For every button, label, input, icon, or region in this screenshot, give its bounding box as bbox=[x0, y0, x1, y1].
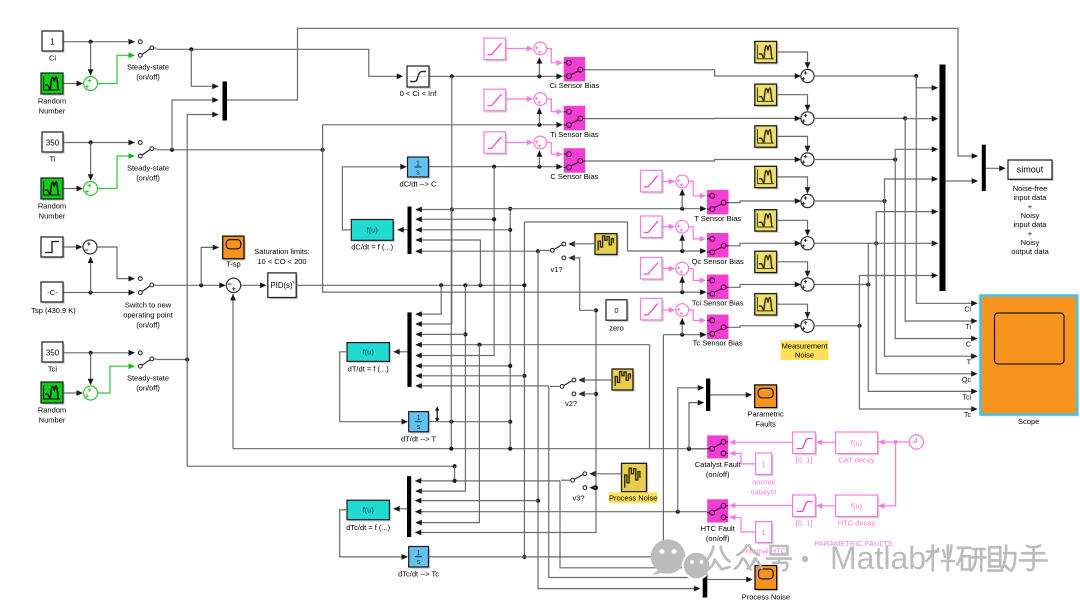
wire Tsp to switch bbox=[64, 257, 131, 295]
svg-text:Ti: Ti bbox=[50, 155, 56, 164]
mux D (dTc/dt) bbox=[407, 476, 411, 537]
svg-text:v3?: v3? bbox=[572, 494, 584, 503]
wire Tci sensor row bbox=[323, 150, 707, 295]
wire sum to switch Ci bbox=[547, 49, 563, 66]
svg-text:Tci: Tci bbox=[962, 395, 971, 402]
wire CO to muxC in1 bbox=[415, 285, 441, 317]
svg-text:zero: zero bbox=[609, 324, 624, 333]
annotation Measurement Noise bbox=[781, 341, 829, 360]
sum noisy Ci bbox=[801, 69, 814, 82]
wire CO vertical bbox=[415, 222, 526, 559]
svg-text:Random: Random bbox=[38, 406, 66, 415]
wire v3 out vertical bbox=[560, 480, 700, 571]
sum Ci sensor bbox=[534, 42, 547, 55]
constant Tci bbox=[42, 342, 65, 374]
svg-text:Tc Sensor Bias: Tc Sensor Bias bbox=[693, 339, 743, 348]
svg-text:Tci Sensor Bias: Tci Sensor Bias bbox=[692, 299, 744, 308]
wire sum to switch Tci bbox=[689, 269, 707, 284]
mux E (outputs) bbox=[940, 65, 946, 292]
integrator dT/dt to T bbox=[401, 412, 436, 444]
noise block sensor C bbox=[755, 126, 779, 149]
wire HTC out bbox=[678, 385, 704, 512]
ramp Tc bias bbox=[641, 298, 664, 321]
svg-text:dTc/dt = f (...): dTc/dt = f (...) bbox=[346, 523, 390, 532]
wire CAT decay to sat01a bbox=[816, 439, 836, 445]
svg-text:catalyst: catalyst bbox=[751, 488, 777, 497]
wire T out bbox=[429, 209, 511, 449]
wire v2 to muxC in8 bbox=[415, 383, 548, 389]
svg-text:Catalyst Fault: Catalyst Fault bbox=[695, 460, 742, 469]
wire switch3 to sum5 bbox=[157, 282, 226, 288]
svg-text:Noisy: Noisy bbox=[1021, 238, 1040, 247]
svg-text:Tc: Tc bbox=[964, 412, 972, 419]
wire Ti to scope bbox=[905, 118, 978, 331]
svg-text:T-sp: T-sp bbox=[226, 260, 241, 269]
wire switch1 out bbox=[157, 47, 404, 79]
noise block v1 bbox=[595, 234, 619, 257]
wire muxH to scope bbox=[707, 577, 752, 583]
svg-text:(on/off): (on/off) bbox=[136, 73, 160, 82]
svg-text:Noise: Noise bbox=[795, 351, 814, 360]
wire sum2 to switch (green) bbox=[98, 156, 129, 189]
wire feedback/catalyst row y449 bbox=[230, 294, 707, 451]
svg-text:(on/off): (on/off) bbox=[136, 321, 160, 330]
wire muxC in3 from PID branch bbox=[415, 285, 467, 494]
wire sum noisy Qc to muxE bbox=[814, 209, 938, 246]
wire HTC decay to sat01b bbox=[816, 503, 836, 509]
wire noise to sum Qc bbox=[777, 220, 811, 236]
svg-text:Noise-free: Noise-free bbox=[1013, 184, 1048, 193]
svg-text:1: 1 bbox=[50, 38, 55, 47]
sum Tc sensor bbox=[676, 304, 689, 317]
wire rand1 to sum1 bbox=[64, 81, 84, 87]
wire T row bbox=[451, 189, 706, 212]
wire Tc row bbox=[663, 318, 706, 338]
wire rand3 to sum4 bbox=[64, 390, 84, 396]
svg-text:CAT decay: CAT decay bbox=[838, 456, 875, 465]
wire noise to sum T bbox=[777, 177, 811, 194]
svg-text:input data: input data bbox=[1014, 193, 1048, 202]
switch Qc Sensor Bias bbox=[692, 233, 744, 266]
svg-text:dC/dt --> C: dC/dt --> C bbox=[400, 180, 437, 189]
sum Tci sensor bbox=[676, 262, 689, 275]
simout annotation bbox=[1011, 184, 1049, 256]
mux B (dC/dt) bbox=[408, 207, 412, 255]
wire step to sum3 bbox=[64, 244, 83, 250]
wire noise to sum Tc bbox=[777, 304, 811, 318]
wire zero vertical to muxD in6 bbox=[415, 308, 598, 535]
sum Qc sensor bbox=[676, 220, 689, 233]
ramp Tci bias bbox=[641, 258, 664, 281]
svg-text:350: 350 bbox=[46, 349, 60, 358]
svg-text:Ci Sensor Bias: Ci Sensor Bias bbox=[550, 81, 600, 90]
noise block sensor T bbox=[755, 166, 779, 189]
sum C sensor bbox=[534, 136, 547, 149]
wire fcnT to integrator T bbox=[340, 352, 408, 425]
svg-text:T Sensor Bias: T Sensor Bias bbox=[694, 214, 741, 223]
svg-text:Parametric: Parametric bbox=[747, 410, 784, 419]
wire sum4 to switch (green) bbox=[98, 366, 129, 393]
wire switch2 out bbox=[157, 148, 325, 152]
switch T Sensor Bias bbox=[694, 190, 741, 223]
svg-text:Qc: Qc bbox=[962, 377, 971, 384]
clock bbox=[909, 435, 923, 449]
manual switch Steady-state 3 bbox=[127, 350, 169, 393]
random number 2 bbox=[38, 178, 66, 221]
wire muxD out to fcn bbox=[393, 506, 407, 512]
svg-text:1: 1 bbox=[417, 550, 421, 557]
wire ramp to sum Tc bbox=[662, 307, 675, 313]
mux G (parametric) bbox=[706, 379, 710, 411]
wire switch out T bbox=[729, 198, 802, 204]
wire catalyst out bbox=[687, 400, 707, 451]
wire C to muxB in2 bbox=[415, 216, 494, 222]
constant Tsp -C- bbox=[31, 282, 76, 315]
wire sum noisy Tc to muxE bbox=[814, 273, 938, 328]
noise block sensor Ti bbox=[755, 84, 779, 107]
svg-text:Number: Number bbox=[39, 416, 66, 425]
wire noise to sum Tci bbox=[777, 262, 811, 278]
wire sum noisy T to muxE bbox=[814, 176, 938, 203]
wire sum to switch C bbox=[547, 143, 563, 158]
svg-text:Measurement: Measurement bbox=[782, 342, 829, 351]
svg-text:Matlab: Matlab bbox=[830, 540, 926, 576]
svg-text:+: + bbox=[1028, 229, 1033, 238]
wire Ci to switch bbox=[64, 40, 131, 76]
svg-text:simout: simout bbox=[1017, 165, 1044, 175]
wire switch out Tc bbox=[729, 323, 802, 329]
wire C to scope bbox=[895, 160, 978, 349]
PID controller bbox=[268, 273, 298, 299]
wire T vertical x510 bbox=[415, 207, 512, 449]
wire Tc to scope bbox=[859, 326, 977, 419]
mux C (dT/dt) bbox=[407, 312, 411, 387]
wire zero to v3 in2 bbox=[594, 487, 597, 489]
switch HTC Fault bbox=[701, 499, 736, 543]
integrator dC/dt to C bbox=[400, 157, 437, 189]
wire noise to sum C bbox=[777, 136, 811, 152]
wire v3 line muxD in1 bbox=[415, 478, 560, 484]
wire switch out Ti bbox=[585, 116, 801, 122]
noise block sensor Tci bbox=[755, 251, 779, 274]
wire v1 noise to switch bbox=[573, 243, 596, 245]
ramp Ti bias bbox=[484, 89, 507, 112]
wire ramp to sum Qc bbox=[662, 224, 675, 230]
wire CO to Qc sensor bbox=[524, 222, 706, 254]
svg-text:f(u): f(u) bbox=[363, 348, 375, 357]
wire HTC row y511 bbox=[415, 509, 707, 515]
svg-text:operating point: operating point bbox=[123, 311, 174, 320]
svg-text:1: 1 bbox=[762, 528, 766, 537]
switch Ti Sensor Bias bbox=[550, 106, 599, 139]
wire to muxD in5 bbox=[415, 345, 479, 526]
switch Tc Sensor Bias bbox=[693, 315, 743, 348]
switch Catalyst Fault bbox=[695, 435, 742, 479]
sum T sensor bbox=[676, 175, 689, 188]
saturation [0,1] a bbox=[793, 432, 818, 465]
svg-text:Random: Random bbox=[38, 97, 66, 106]
svg-text:Saturation limits:: Saturation limits: bbox=[254, 247, 309, 256]
wire sum noisy C to muxE bbox=[814, 146, 938, 161]
svg-text:350: 350 bbox=[46, 139, 60, 148]
svg-text:dT/dt = f (...): dT/dt = f (...) bbox=[348, 365, 390, 374]
constant Ci bbox=[42, 31, 65, 63]
noise block sensor Qc bbox=[755, 210, 779, 233]
wire T to scope bbox=[885, 201, 978, 366]
svg-text:s: s bbox=[417, 559, 421, 566]
manual switch Steady-state 1 bbox=[127, 39, 169, 82]
wire muxB out to fcn bbox=[397, 227, 407, 233]
scope Process Noise bbox=[742, 566, 790, 602]
fcn dC/dt bbox=[351, 220, 395, 252]
wire switch out Ci bbox=[585, 70, 801, 79]
fcn dT/dt bbox=[347, 343, 391, 374]
svg-text:input data: input data bbox=[1014, 220, 1048, 229]
manual switch v3 bbox=[571, 471, 596, 503]
svg-text:Number: Number bbox=[39, 107, 66, 116]
wire Tci steady to muxA in3 bbox=[157, 112, 219, 362]
svg-text:HTC decay: HTC decay bbox=[838, 519, 876, 528]
wire sat01b to HTC switch bbox=[729, 503, 793, 509]
wire sat01a to catalyst switch bbox=[729, 439, 793, 445]
constant Ti bbox=[42, 132, 65, 164]
ramp Qc bias bbox=[641, 216, 664, 239]
wire Ti to sensor row bbox=[323, 108, 563, 150]
wire switch out Tci bbox=[729, 282, 802, 288]
svg-text:f(u): f(u) bbox=[851, 439, 863, 448]
svg-text:Number: Number bbox=[39, 212, 66, 221]
svg-text:Qc Sensor Bias: Qc Sensor Bias bbox=[692, 257, 744, 266]
annotation saturation limits bbox=[254, 247, 309, 266]
random number 1 bbox=[38, 73, 66, 116]
svg-text:Ci: Ci bbox=[964, 307, 971, 314]
svg-text:[0, 1]: [0, 1] bbox=[796, 456, 813, 465]
sum noisy Tci bbox=[801, 278, 814, 291]
wire noise to sum Ci bbox=[777, 52, 811, 69]
wire rand2 to sum2 bbox=[64, 186, 84, 192]
wire ramp to sum T bbox=[662, 179, 675, 185]
svg-text:Steady-state: Steady-state bbox=[127, 63, 169, 72]
wire PID out (CO) bbox=[296, 283, 524, 287]
svg-text:f(u): f(u) bbox=[851, 502, 863, 511]
svg-text:output data: output data bbox=[1011, 247, 1049, 256]
wire Qc to scope bbox=[876, 243, 978, 384]
svg-text:f(u): f(u) bbox=[367, 226, 379, 235]
wire Ti to switch bbox=[64, 140, 131, 180]
wire sum noisy Tci to muxE bbox=[814, 240, 938, 286]
wire sum5 to PID bbox=[241, 282, 267, 288]
mux A bbox=[223, 82, 228, 121]
sum noisy Ti bbox=[801, 112, 814, 125]
mux F (simout) bbox=[982, 145, 986, 191]
integrator dTc/dt to Tc bbox=[398, 547, 439, 579]
scope Parametric Faults bbox=[747, 385, 784, 429]
svg-text:v1?: v1? bbox=[550, 265, 562, 274]
svg-text:normal: normal bbox=[752, 478, 775, 487]
svg-text:C: C bbox=[966, 342, 971, 349]
wire sum to switch Tc bbox=[689, 310, 707, 323]
svg-text:Faults: Faults bbox=[755, 420, 776, 429]
sum noisy T bbox=[801, 194, 814, 207]
sum noisy C bbox=[801, 153, 814, 166]
wire ramp to sum Ti bbox=[506, 96, 534, 102]
ramp T bias bbox=[641, 170, 664, 193]
wire clock to CAT decay bbox=[878, 439, 909, 445]
svg-text:dC/dt = f (...): dC/dt = f (...) bbox=[351, 243, 393, 252]
wire muxF to simout bbox=[986, 165, 1006, 171]
wire normal catalyst to switch bbox=[729, 451, 756, 464]
sum 5 (PID) bbox=[226, 278, 240, 292]
manual switch Steady-state 2 bbox=[127, 140, 169, 183]
wire C row bbox=[429, 150, 563, 169]
wire to T-sp bbox=[201, 245, 219, 286]
wire Tci to scope bbox=[868, 285, 977, 402]
switch Ci Sensor Bias bbox=[550, 57, 600, 90]
wire sum1 to switch (green) bbox=[98, 55, 129, 83]
sum 4 (green) bbox=[84, 386, 98, 400]
wire Tci to switch bbox=[64, 351, 131, 386]
svg-text:0 < Ci < Inf: 0 < Ci < Inf bbox=[400, 89, 438, 98]
step block bbox=[41, 237, 65, 259]
svg-text:Scope: Scope bbox=[1018, 417, 1039, 426]
sum 3 (step) bbox=[83, 240, 97, 254]
wire muxB in4 bbox=[415, 237, 480, 285]
wire switch out C bbox=[585, 157, 801, 163]
constant normal HTC bbox=[746, 522, 787, 556]
sum noisy Qc bbox=[801, 237, 814, 250]
simout block bbox=[1008, 160, 1054, 181]
manual switch operating point bbox=[123, 276, 174, 330]
wire Ci down to muxB/muxC bbox=[415, 76, 454, 327]
svg-text:10 < CO < 200: 10 < CO < 200 bbox=[257, 257, 306, 266]
wire noise-free bundle (top) bbox=[227, 28, 978, 159]
ramp Ci bias bbox=[484, 38, 507, 61]
noise block v3 bbox=[622, 463, 649, 493]
svg-text:0: 0 bbox=[614, 306, 618, 315]
fcn dTc/dt bbox=[346, 500, 391, 532]
wire T feedback to muxC in4 bbox=[415, 342, 649, 449]
watermark logo and text bbox=[651, 539, 1047, 580]
svg-text:Ci: Ci bbox=[49, 54, 56, 63]
sum Ti sensor bbox=[534, 93, 547, 106]
wire muxG to scope bbox=[710, 392, 752, 398]
noise block v2 bbox=[612, 369, 635, 392]
svg-text:Random: Random bbox=[38, 202, 66, 211]
svg-text:+: + bbox=[1028, 202, 1033, 211]
wire ramp to sum Ci bbox=[506, 46, 534, 52]
wire C down muxC in5 bbox=[415, 167, 496, 359]
svg-text:s: s bbox=[416, 170, 420, 177]
wire muxC out to fcn bbox=[393, 349, 407, 355]
svg-text:T: T bbox=[967, 359, 972, 366]
svg-text:Ti: Ti bbox=[965, 324, 971, 331]
wire sum to switch Ti bbox=[547, 99, 563, 115]
svg-text:[0, 1]: [0, 1] bbox=[796, 519, 813, 528]
svg-text:Process Noise: Process Noise bbox=[609, 494, 657, 503]
wire v1 out bbox=[538, 249, 550, 252]
wire Tci feed bbox=[187, 360, 457, 481]
wire normal HTC to switch bbox=[729, 514, 756, 532]
wire sum3 to switch bbox=[97, 247, 129, 279]
scope block bbox=[981, 296, 1079, 427]
svg-text:-C-: -C- bbox=[47, 288, 58, 297]
svg-text:C Sensor Bias: C Sensor Bias bbox=[550, 172, 598, 181]
svg-text:PID(s): PID(s) bbox=[270, 281, 292, 290]
noise block sensor Ci bbox=[755, 41, 779, 64]
ramp C bias bbox=[484, 132, 507, 155]
noise block sensor Tc bbox=[755, 294, 779, 317]
scope T-sp bbox=[223, 236, 246, 268]
updown arrow annotation bbox=[435, 406, 439, 422]
svg-text:1: 1 bbox=[416, 161, 420, 168]
manual switch v1 bbox=[550, 241, 574, 274]
wire muxE to muxF bbox=[946, 178, 979, 184]
svg-text:f(u): f(u) bbox=[363, 506, 375, 515]
constant zero bbox=[606, 300, 629, 333]
wire v2 out vertical bbox=[549, 386, 701, 581]
sum noisy Tc bbox=[801, 319, 814, 332]
wire sum noisy Ti to muxE bbox=[814, 116, 938, 122]
wire v3 noise to switch bbox=[594, 473, 622, 475]
constant normal catalyst bbox=[751, 453, 777, 497]
annotation Process Noise label bbox=[609, 492, 658, 503]
switch C Sensor Bias bbox=[550, 148, 598, 181]
wire fcn to integrator C bbox=[342, 164, 406, 230]
wire ramp to sum Tci bbox=[662, 266, 675, 272]
wire zero to v1 in2 bbox=[573, 258, 597, 310]
svg-text:Tsp (430.9 K): Tsp (430.9 K) bbox=[31, 306, 76, 315]
svg-text:Ti Sensor Bias: Ti Sensor Bias bbox=[550, 130, 599, 139]
svg-text:Steady-state: Steady-state bbox=[127, 374, 169, 383]
svg-text:(on/off): (on/off) bbox=[136, 384, 160, 393]
fcn HTC decay bbox=[836, 495, 880, 528]
svg-text:v2?: v2? bbox=[565, 399, 577, 408]
wire zero to v2 in2 bbox=[583, 393, 597, 395]
wire sum to switch T bbox=[689, 181, 707, 198]
random number 3 bbox=[38, 382, 66, 425]
svg-text:(on/off): (on/off) bbox=[706, 470, 730, 479]
svg-text:dTc/dt --> Tc: dTc/dt --> Tc bbox=[398, 570, 439, 579]
wire Ci to scope bbox=[916, 76, 977, 314]
switch Tci Sensor Bias bbox=[692, 275, 744, 308]
wire Tc out bbox=[429, 335, 664, 557]
svg-text:(on/off): (on/off) bbox=[136, 174, 160, 183]
wire v1 to muxB in5 bbox=[415, 248, 540, 254]
wire clock to HTC decay bbox=[878, 442, 896, 509]
wire noise to sum Ti bbox=[777, 95, 811, 112]
wire to muxA in2 bbox=[172, 97, 219, 150]
mux H (process noise) bbox=[703, 564, 708, 598]
svg-text:dT/dt --> T: dT/dt --> T bbox=[401, 435, 436, 444]
saturation 0<Ci<Inf bbox=[400, 66, 438, 98]
sum 1 (green) bbox=[84, 77, 98, 91]
svg-text:HTC Fault: HTC Fault bbox=[701, 524, 736, 533]
svg-text:Tci: Tci bbox=[48, 365, 58, 374]
manual switch v2 bbox=[560, 377, 585, 408]
wire v2 noise to switch bbox=[583, 379, 613, 381]
wire to muxA in1 bbox=[191, 49, 219, 89]
saturation [0,1] b bbox=[793, 495, 818, 528]
svg-text:1: 1 bbox=[762, 460, 766, 469]
wire switch out Qc bbox=[729, 240, 802, 246]
svg-text:1: 1 bbox=[417, 415, 421, 422]
svg-text:s: s bbox=[417, 424, 421, 431]
wire sum to switch Qc bbox=[689, 227, 707, 242]
sum 2 (green) bbox=[84, 182, 98, 196]
wire sum noisy Ci to muxE bbox=[814, 74, 938, 91]
svg-text:(on/off): (on/off) bbox=[706, 534, 730, 543]
fcn CAT decay bbox=[836, 432, 880, 465]
